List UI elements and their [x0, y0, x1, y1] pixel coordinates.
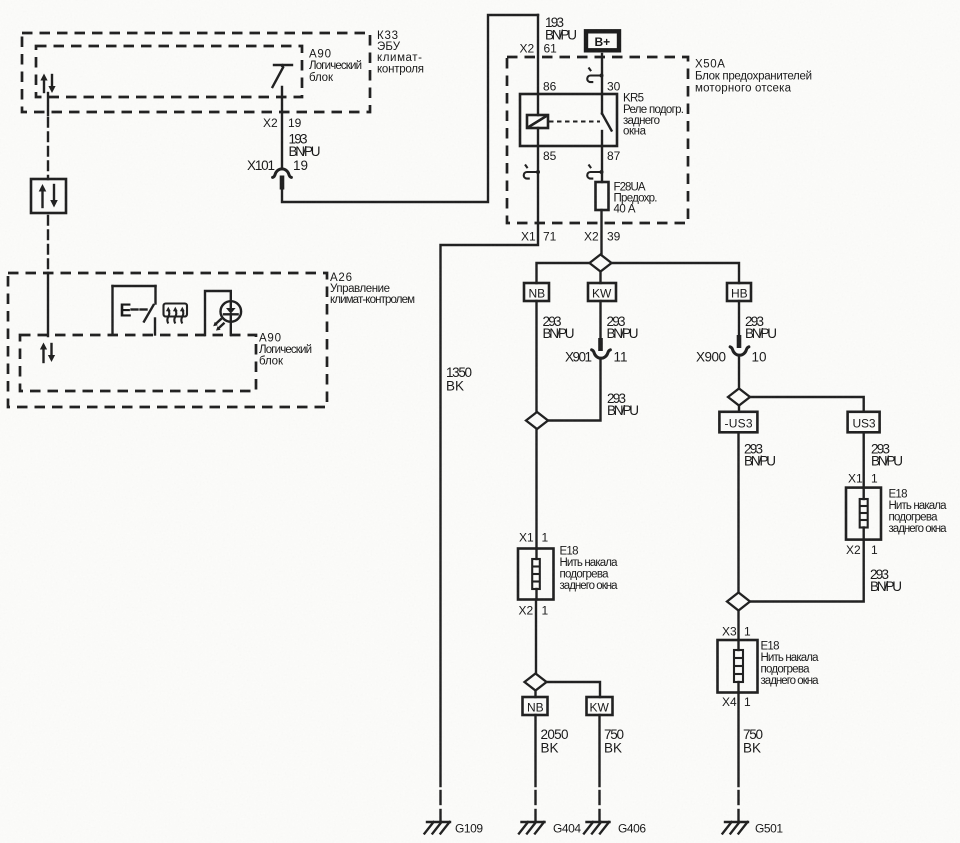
pin label X1 1 (E18 right)	[848, 472, 878, 486]
data bus arrows (A90 in A26)	[40, 343, 55, 363]
X50A label	[695, 59, 812, 95]
wire label 293 BN/PU (KW)	[607, 314, 639, 341]
wire: US3 to E18 (right)	[863, 432, 865, 487]
wire label 293 BN/PU (-US3)	[744, 442, 776, 469]
terminal HB	[727, 283, 751, 301]
wire label 193 BN/PU	[289, 132, 321, 160]
wire: NB to splice S2	[535, 301, 537, 412]
connector X101 pin 19	[247, 158, 308, 190]
wire label 750 BK (G501)	[743, 727, 763, 756]
serial data link connector box	[31, 179, 66, 213]
defogger element E18 (right)	[846, 488, 881, 540]
logic block A90 dashed box (in K33)	[36, 46, 302, 97]
connector X900 pin 10	[696, 335, 767, 365]
CAN bus dashed wire (K33 to A26)	[47, 93, 49, 336]
ground G109	[425, 822, 484, 836]
terminal US3	[848, 412, 880, 433]
terminal NB (lower)	[523, 697, 548, 715]
connector clip pin 87	[587, 165, 603, 179]
wire: S4 to terminal -US3	[738, 406, 740, 412]
terminal KW	[588, 283, 616, 301]
pin label X1 71	[521, 230, 557, 244]
A90 label (in K33)	[309, 49, 362, 85]
pin label X1 1 (E18 left)	[519, 531, 549, 545]
relay contact blade	[602, 94, 612, 146]
splice S2	[526, 412, 548, 429]
E18 label (right)	[889, 489, 948, 536]
wire label 1350 BK	[446, 365, 472, 394]
indicator LED (A26)	[205, 291, 241, 335]
pin label X2 19	[263, 116, 302, 130]
terminal -US3	[719, 412, 757, 433]
wire 1350 BK: X1/71 to ground G109	[441, 223, 539, 821]
pin label X2 39	[584, 230, 621, 244]
wire label 293 BN/PU (below X901)	[607, 391, 639, 418]
wire: E18 (right) to splice S5	[750, 540, 864, 602]
wire: X901 to splice S2	[548, 358, 601, 421]
relay coil	[527, 115, 548, 128]
pin label X2 1 (E18 left)	[519, 604, 549, 618]
pin label X3 1 (E18 bottom)	[722, 625, 751, 639]
wire: E18 (left) to splice S3	[535, 600, 537, 674]
splice S1	[590, 255, 612, 272]
pin label X2 61	[520, 42, 558, 56]
wire label 293 BN/PU (US3)	[871, 442, 903, 469]
splice S3	[525, 674, 547, 691]
climate control head A26 dashed box	[8, 273, 327, 407]
connector clip pin 30	[587, 68, 603, 83]
ECU K33 dashed box	[22, 33, 370, 112]
pin label X4 1 (E18 bottom)	[722, 695, 751, 709]
wire: coil pin 85 down to X1/71	[537, 128, 539, 223]
wire: fuse to splice S1	[600, 210, 602, 255]
fuse F28UA 40 A	[596, 182, 658, 216]
KR5 label	[623, 93, 684, 138]
K33 label	[377, 30, 424, 76]
wire label 293 BN/PU (HB)	[745, 314, 777, 341]
splice S4	[728, 389, 750, 406]
pin label X2 1 (E18 right)	[846, 543, 878, 557]
wire: X2/61 into relay coil pin 86	[537, 15, 539, 115]
terminal NB	[524, 283, 549, 301]
fuse box X50A dashed box	[507, 57, 688, 223]
A26 label	[330, 272, 415, 306]
wire label 750 BK (G406)	[604, 727, 624, 756]
wire: S1 to NB	[537, 263, 590, 283]
terminal KW (lower)	[587, 697, 613, 715]
ground G501	[723, 822, 784, 836]
wire: NB (lower) to ground G404	[534, 715, 536, 821]
wire: HB to X900	[738, 301, 740, 336]
connector X901 pin 11	[565, 338, 628, 365]
pin labels 85 87	[543, 149, 621, 163]
defogger switch (A26)	[113, 286, 156, 335]
defogger element E18 (bottom)	[718, 640, 758, 693]
E18 label (left)	[560, 546, 619, 593]
wire label 293 BN/PU (NB)	[543, 314, 575, 341]
wire: S1 to KW	[599, 272, 601, 284]
wire label 2050 BK	[541, 727, 569, 756]
wire: B+ to relay pin 30	[601, 54, 603, 94]
wire: KW (lower) to ground G406	[598, 715, 600, 821]
pin labels 86 30	[543, 80, 621, 94]
switch contact in A90 (K33)	[273, 64, 293, 87]
defogger element E18 (left)	[518, 549, 554, 600]
wire: switch to connector X101	[281, 87, 283, 167]
relay KR5 box	[520, 94, 617, 146]
splice S5	[727, 593, 750, 611]
wire: S2 to defogger element E18 (left)	[535, 429, 537, 549]
data bus arrows (A90 in K33)	[40, 74, 55, 94]
wire: E18 (bottom) to ground G501	[737, 693, 739, 822]
ground G406	[584, 822, 646, 836]
battery feed B+	[586, 31, 619, 50]
wire: KW to X901	[599, 301, 601, 339]
heated rear window icon (A26)	[164, 304, 188, 324]
wire: S1 to HB	[612, 263, 740, 283]
logic block A90 dashed box (in A26)	[20, 335, 256, 391]
wire label 193 BN/PU (top)	[545, 15, 577, 43]
wire: X101 to fuse box feed 193	[282, 15, 538, 202]
wire: -US3 to splice S5	[737, 432, 739, 593]
connector clip pin 85	[524, 165, 540, 179]
relay coil-contact dashed link	[549, 120, 600, 122]
wire: X900 to splice S4	[738, 355, 740, 389]
A90 label (in A26)	[259, 333, 312, 368]
wire: S5 to E18 (bottom)	[737, 611, 739, 641]
wire: S3 to terminal KW (lower)	[547, 682, 601, 697]
wire label 293 BN/PU (E18 right)	[870, 567, 902, 594]
E18 label (bottom)	[761, 641, 820, 688]
wire: S3 to terminal NB (lower)	[534, 691, 536, 698]
wire: pin 87 to fuse	[601, 146, 603, 182]
wire: S4 to terminal US3	[750, 397, 864, 412]
ground G404	[519, 822, 581, 836]
